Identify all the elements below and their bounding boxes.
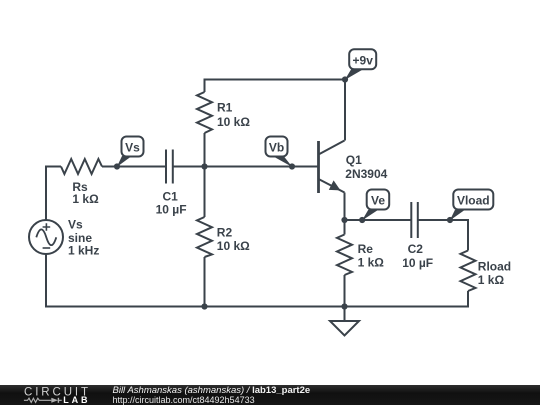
node dot Vb [289, 163, 295, 169]
svg-text:C1: C1 [163, 189, 179, 203]
svg-text:+9v: +9v [353, 53, 374, 67]
node label +9v [345, 49, 377, 80]
svg-text:Vload: Vload [457, 194, 490, 208]
voltage source Vs minus sign [43, 247, 51, 249]
junction dot ground node [341, 303, 347, 309]
svg-text:Vb: Vb [269, 141, 284, 155]
voltage source Vs plus sign [43, 223, 51, 231]
resistor Re [337, 235, 352, 276]
resistor R2 [197, 217, 212, 257]
transistor Q1 base bar [317, 141, 320, 193]
wire: Re bottom lead [344, 275, 346, 307]
wire: Ve horizontal to C2 left plate [345, 219, 412, 221]
junction dot R1-R2-base node [201, 163, 207, 169]
capacitor C2 [411, 202, 418, 238]
wire: R2 bottom lead [204, 257, 206, 307]
svg-text:Vs: Vs [125, 141, 140, 155]
resistor R1 [197, 92, 212, 133]
transistor Q1 collector [319, 141, 345, 155]
svg-text:Re: Re [358, 242, 374, 256]
svg-text:R1: R1 [217, 101, 233, 115]
CircuitLab logo [20, 385, 100, 406]
resistor Rload [461, 251, 476, 292]
wire: R1 bottom lead [204, 133, 206, 167]
svg-text:10 kΩ: 10 kΩ [217, 239, 250, 253]
node label Ve [362, 190, 389, 221]
svg-text:1 kΩ: 1 kΩ [358, 256, 385, 270]
credit line 1 [113, 385, 311, 396]
wire: Rs to C1 left plate [102, 166, 166, 168]
transistor Q1 emitter arrowhead [329, 180, 341, 190]
svg-text:LAB: LAB [63, 395, 90, 405]
transistor Q1 emitter [319, 179, 345, 193]
node label Vb [266, 137, 293, 168]
svg-text:R2: R2 [217, 225, 233, 239]
svg-text:C2: C2 [408, 242, 424, 256]
svg-text:10 µF: 10 µF [156, 203, 187, 217]
junction dot emitter-Re node [341, 217, 347, 223]
wire: emitter down to Ve wire [344, 193, 346, 221]
svg-text:Ve: Ve [371, 194, 385, 208]
svg-text:Vs: Vs [68, 218, 83, 232]
node label Vs [117, 137, 144, 168]
svg-text:10 kΩ: 10 kΩ [217, 115, 250, 129]
ground symbol [330, 321, 359, 336]
wire: top +9v rail with corner to R1 and collector column [205, 80, 346, 141]
wire: Re top lead [344, 220, 346, 235]
svg-text:1 kΩ: 1 kΩ [478, 273, 505, 287]
resistor Rs [61, 159, 102, 174]
svg-text:1 kHz: 1 kHz [68, 243, 99, 257]
svg-text:Rload: Rload [478, 260, 511, 274]
svg-text:10 µF: 10 µF [402, 256, 433, 270]
credit line 2 [113, 395, 255, 405]
wire: C2 right plate to Rload corner and top lead [418, 220, 468, 251]
voltage source Vs [29, 220, 63, 254]
node dot +9v [342, 76, 348, 82]
voltage source Vs sine wave [36, 229, 56, 245]
wire: R2 top lead [204, 167, 206, 218]
node label Vload [450, 190, 494, 221]
svg-text:2N3904: 2N3904 [345, 167, 387, 181]
svg-text:Q1: Q1 [346, 153, 362, 167]
node dot Vload [447, 217, 453, 223]
node dot Vs [114, 163, 120, 169]
ground stem [344, 307, 346, 322]
capacitor C1 [166, 150, 173, 184]
wire: main base wire corner at left column down to source [46, 167, 61, 221]
junction dot R2 bottom [201, 303, 207, 309]
node dot Ve [359, 217, 365, 223]
wire: C1 right plate to base bar [173, 166, 318, 168]
footer bar [0, 385, 540, 405]
wire: source bottom to bottom rail across to Rload [46, 254, 468, 307]
svg-text:1 kΩ: 1 kΩ [72, 192, 99, 206]
